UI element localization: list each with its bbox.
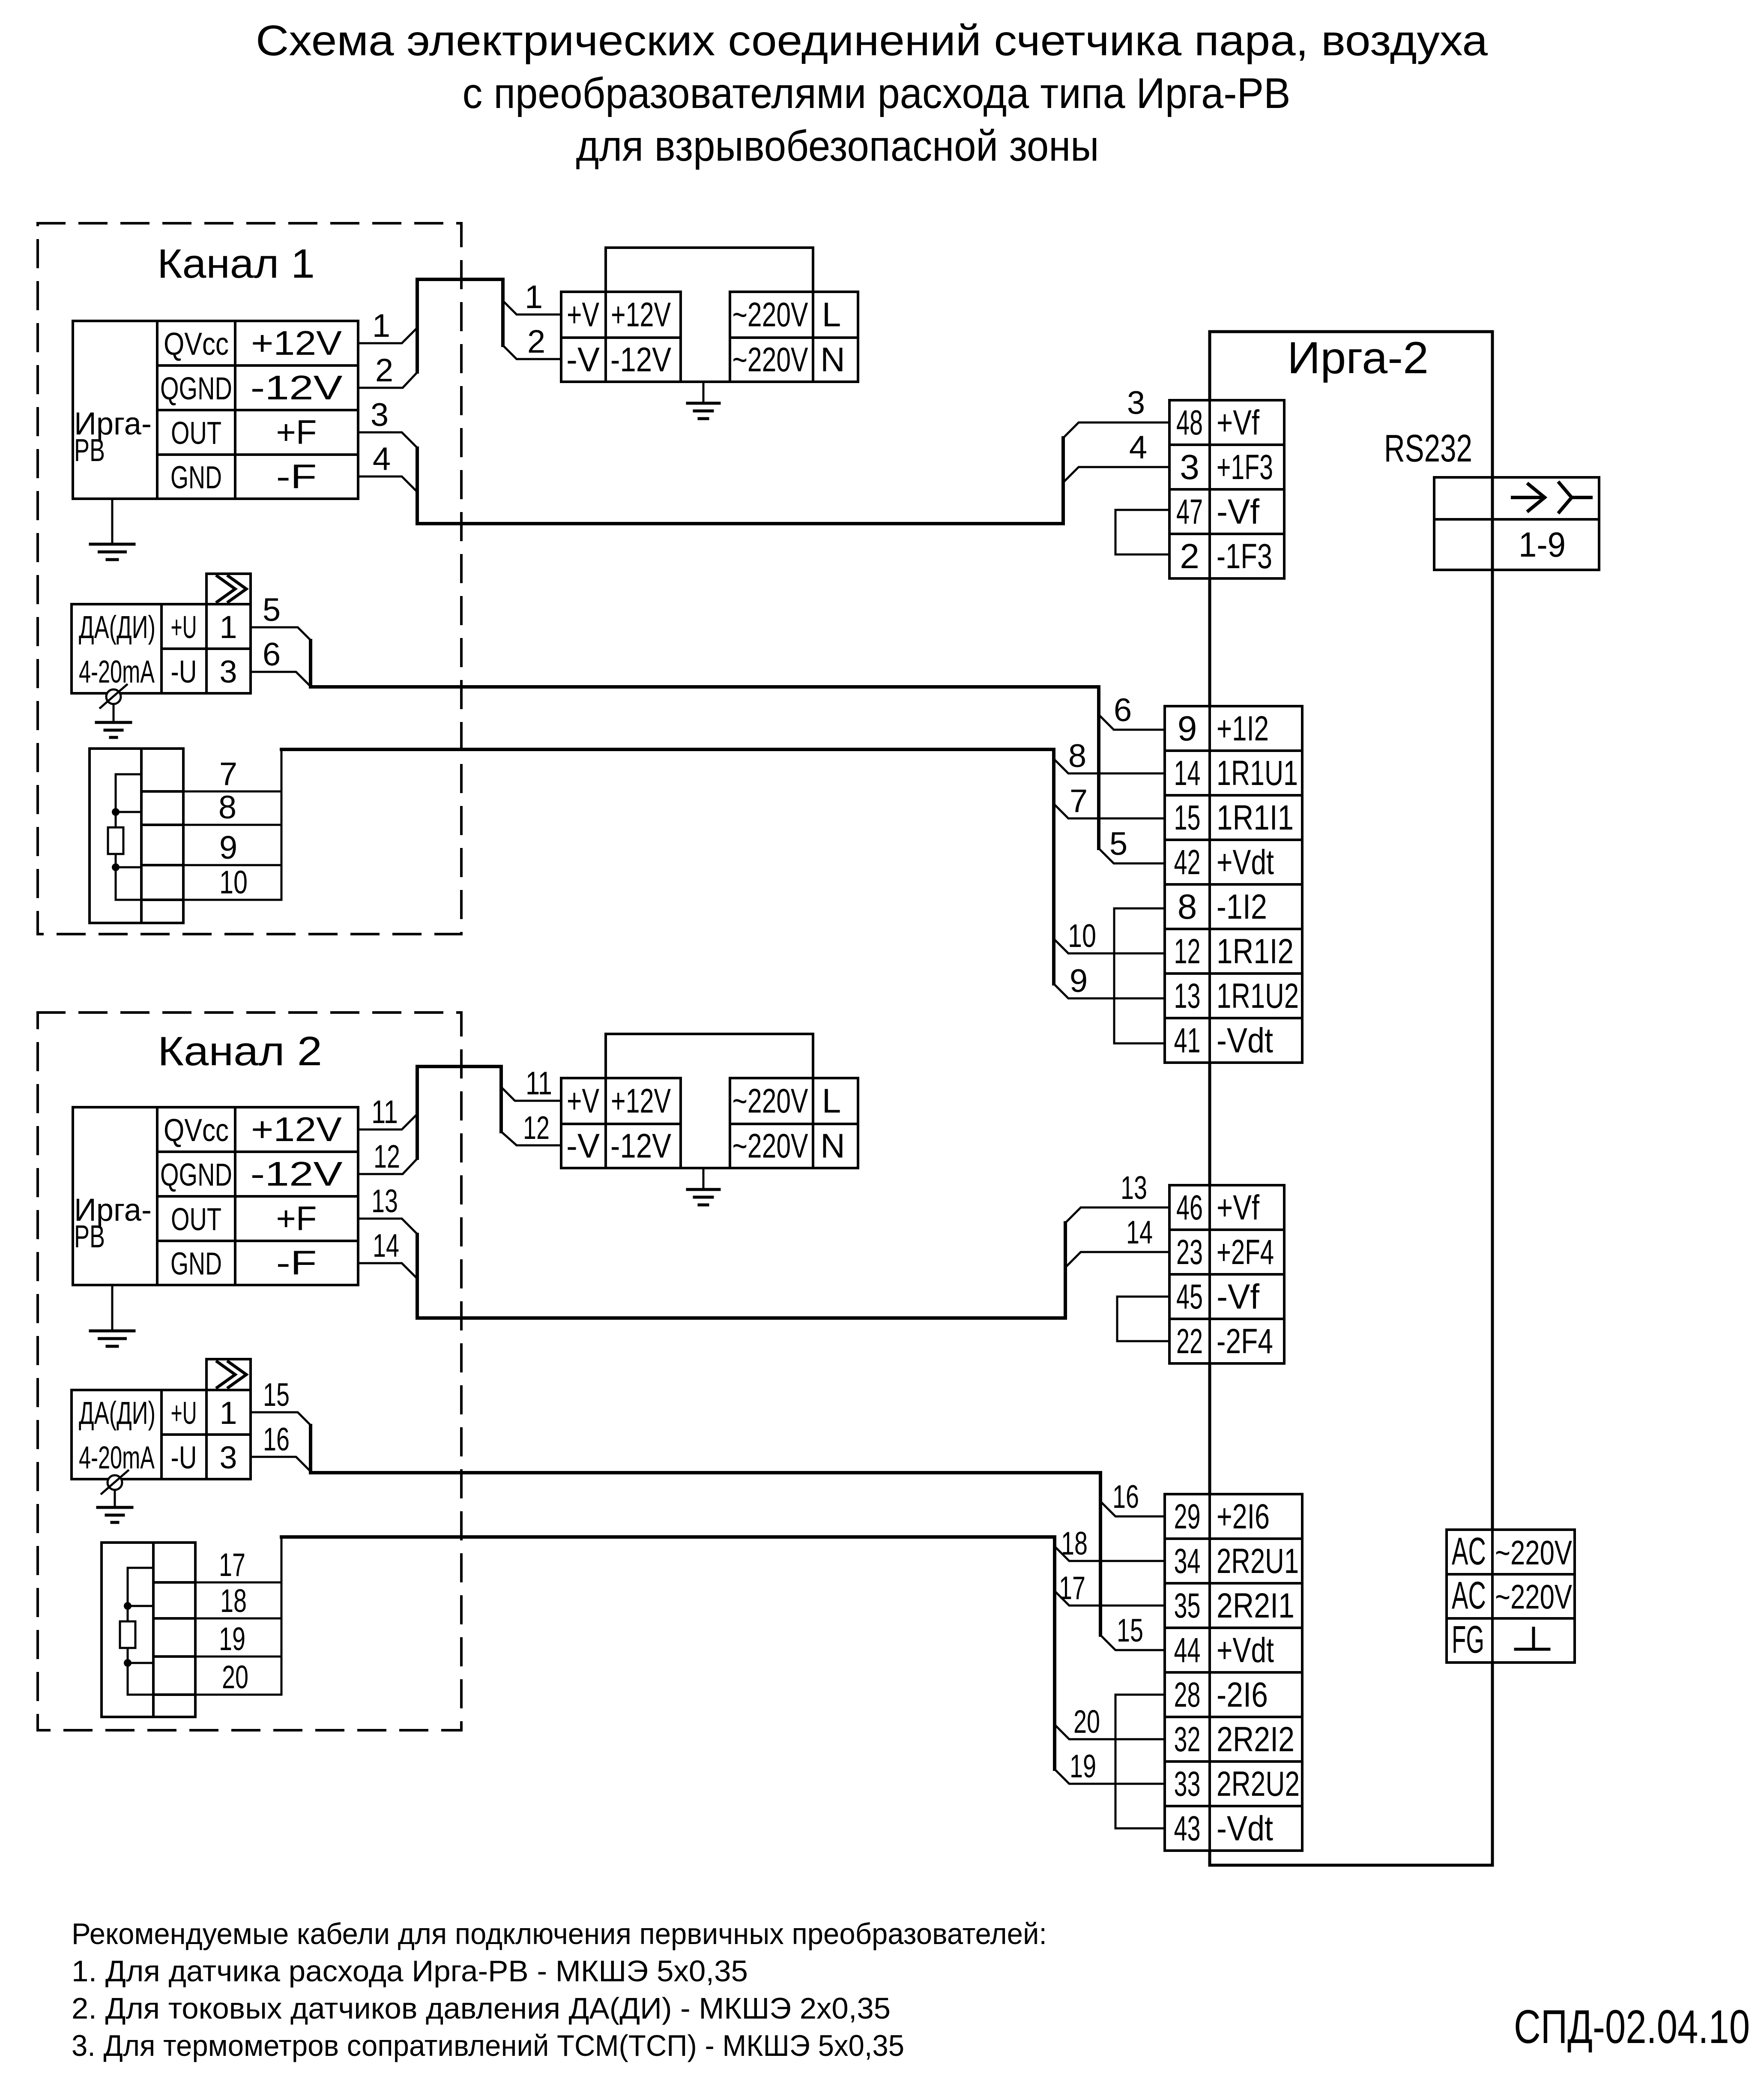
ground under Ирга-РВ ch2 xyxy=(90,1285,134,1346)
svg-text:11: 11 xyxy=(371,1094,398,1130)
svg-text:+2I6: +2I6 xyxy=(1217,1497,1270,1536)
svg-text:3. Для термометров сопративлен: 3. Для термометров сопративлений ТСМ(ТСП… xyxy=(72,2029,904,2062)
svg-text:1R1U2: 1R1U2 xyxy=(1217,977,1299,1016)
svg-text:ДА(ДИ): ДА(ДИ) xyxy=(79,1395,155,1431)
svg-text:20: 20 xyxy=(222,1659,248,1696)
svg-text:15: 15 xyxy=(263,1377,290,1413)
svg-text:QGND: QGND xyxy=(160,1157,232,1192)
svg-text:8: 8 xyxy=(1178,887,1197,926)
svg-text:+12V: +12V xyxy=(251,324,342,362)
svg-text:СПД-02.04.10: СПД-02.04.10 xyxy=(1514,2001,1750,2053)
svg-text:+U: +U xyxy=(171,1395,197,1431)
svg-text:-F: -F xyxy=(276,458,317,496)
svg-text:2: 2 xyxy=(527,324,545,360)
wire 11/12: Ирга-РВ ch2 to PSU ch2 (cable trunk) xyxy=(358,1066,561,1174)
svg-text:2R2I1: 2R2I1 xyxy=(1217,1586,1295,1625)
svg-text:13: 13 xyxy=(371,1183,398,1219)
svg-text:2R2U2: 2R2U2 xyxy=(1217,1764,1300,1803)
svg-text:1. Для датчика расхода Ирга-РВ: 1. Для датчика расхода Ирга-РВ - МКШЭ 5х… xyxy=(72,1954,748,1988)
svg-text:34: 34 xyxy=(1174,1542,1201,1581)
svg-text:~220V: ~220V xyxy=(1495,1578,1572,1616)
svg-text:Канал 1: Канал 1 xyxy=(157,241,315,287)
wires 17-20: RTD ch2 cable to terminals 34/35/32/33 xyxy=(195,1537,1165,1784)
svg-text:N: N xyxy=(820,341,845,379)
svg-text:14: 14 xyxy=(1174,754,1201,793)
svg-text:+2F4: +2F4 xyxy=(1217,1233,1274,1272)
svg-text:2R2U1: 2R2U1 xyxy=(1217,1542,1299,1581)
svg-text:QGND: QGND xyxy=(160,371,232,406)
svg-text:AC: AC xyxy=(1452,1574,1486,1617)
svg-text:-12V: -12V xyxy=(610,341,672,379)
svg-text:12: 12 xyxy=(523,1110,550,1146)
pressure sensor ДА(ДИ) 4-20mA channel 1 xyxy=(72,574,251,693)
svg-text:4-20mA: 4-20mA xyxy=(79,1440,155,1475)
svg-text:14: 14 xyxy=(373,1228,399,1264)
wires 7-10: RTD ch1 cable to terminals 14/15/12/13 xyxy=(183,749,1165,998)
svg-text:AC: AC xyxy=(1452,1530,1486,1573)
svg-text:12: 12 xyxy=(374,1138,400,1175)
svg-text:~220V: ~220V xyxy=(1495,1534,1572,1572)
shielded ground (circle-slash) under ДА(ДИ) ch1 xyxy=(96,685,131,737)
svg-text:32: 32 xyxy=(1174,1720,1201,1759)
svg-text:-2I6: -2I6 xyxy=(1217,1675,1268,1714)
svg-text:+1I2: +1I2 xyxy=(1217,709,1269,748)
wire 13/14: Ирга-РВ ch2 OUT/GND cable to terminals 46/23 xyxy=(358,1207,1169,1318)
svg-text:3: 3 xyxy=(219,1440,237,1475)
svg-text:16: 16 xyxy=(1112,1479,1139,1515)
RS232 connector box with plug-socket symbol and 1-9 xyxy=(1434,477,1599,570)
svg-text:РВ: РВ xyxy=(74,432,105,468)
svg-text:OUT: OUT xyxy=(171,1201,221,1237)
svg-text:-12V: -12V xyxy=(610,1127,672,1165)
svg-text:46: 46 xyxy=(1176,1188,1203,1227)
svg-text:+12V: +12V xyxy=(611,1082,671,1120)
power supply unit channel 1 (+V/+12V, ~220V/L-N) xyxy=(561,248,858,382)
svg-text:~220V: ~220V xyxy=(733,1082,808,1120)
svg-text:4: 4 xyxy=(1129,429,1147,466)
svg-text:L: L xyxy=(822,296,841,334)
svg-text:15: 15 xyxy=(1174,798,1201,837)
svg-text:9: 9 xyxy=(1178,709,1197,748)
wire 3/4: Ирга-РВ OUT/GND cable to terminals 48/3 xyxy=(358,422,1169,524)
svg-text:1-9: 1-9 xyxy=(1519,525,1566,564)
svg-text:18: 18 xyxy=(1061,1525,1088,1562)
svg-text:14: 14 xyxy=(1126,1214,1153,1251)
svg-text:QVcc: QVcc xyxy=(164,1112,229,1148)
svg-text:-Vdt: -Vdt xyxy=(1217,1021,1273,1060)
svg-text:42: 42 xyxy=(1174,843,1201,882)
jumper wire terminals 28 to 43 xyxy=(1115,1695,1165,1828)
svg-text:10: 10 xyxy=(1068,918,1096,954)
svg-text:1: 1 xyxy=(372,308,390,344)
svg-text:Схема электрических соединений: Схема электрических соединений счетчика … xyxy=(256,17,1488,65)
svg-text:3: 3 xyxy=(219,654,237,689)
svg-text:10: 10 xyxy=(219,864,248,901)
svg-text:+F: +F xyxy=(276,413,317,451)
svg-text:33: 33 xyxy=(1174,1764,1201,1803)
svg-text:2. Для токовых датчиков давлен: 2. Для токовых датчиков давления ДА(ДИ) … xyxy=(72,1992,891,2025)
RTD thermometer TCM block channel 2 (resistor inside) xyxy=(102,1543,195,1717)
svg-text:+F: +F xyxy=(276,1199,317,1237)
svg-text:-V: -V xyxy=(566,1127,600,1165)
svg-text:N: N xyxy=(820,1127,845,1165)
svg-text:9: 9 xyxy=(219,830,237,866)
svg-text:L: L xyxy=(822,1082,841,1120)
svg-text:17: 17 xyxy=(219,1547,245,1583)
svg-text:28: 28 xyxy=(1174,1675,1201,1714)
svg-text:+Vdt: +Vdt xyxy=(1217,1631,1274,1670)
terminal strip 48/3/47/2 (+Vf,+1F3,-Vf,-1F3) ch1 xyxy=(1169,400,1284,578)
svg-text:+Vf: +Vf xyxy=(1217,403,1259,442)
svg-text:1R1I1: 1R1I1 xyxy=(1217,798,1294,837)
svg-text:~220V: ~220V xyxy=(733,296,808,334)
svg-text:Рекомендуемые кабели для подкл: Рекомендуемые кабели для подключения пер… xyxy=(72,1917,1047,1950)
svg-text:8: 8 xyxy=(1068,738,1086,774)
svg-text:2R2I2: 2R2I2 xyxy=(1217,1720,1295,1759)
svg-text:1: 1 xyxy=(525,279,543,315)
svg-text:5: 5 xyxy=(1109,826,1127,862)
terminal strip 46/23/45/22 (+Vf,+2F4,-Vf,-2F4) ch2 xyxy=(1169,1185,1284,1363)
ground under power supply ch2 xyxy=(688,1168,719,1205)
svg-text:18: 18 xyxy=(220,1583,247,1619)
svg-text:23: 23 xyxy=(1176,1233,1203,1272)
svg-text:РВ: РВ xyxy=(74,1219,105,1254)
svg-text:2: 2 xyxy=(375,352,393,389)
wire 15/16: ДА(ДИ) ch2 cable to terminals 44/29 xyxy=(252,1412,1165,1650)
svg-text:22: 22 xyxy=(1176,1322,1203,1361)
svg-text:Канал 2: Канал 2 xyxy=(158,1028,322,1074)
svg-text:+V: +V xyxy=(567,296,599,334)
svg-text:3: 3 xyxy=(1127,385,1145,421)
svg-text:+1F3: +1F3 xyxy=(1217,448,1273,487)
svg-text:11: 11 xyxy=(526,1065,552,1102)
ground under power supply ch1 xyxy=(688,382,719,419)
svg-text:с преобразователями расхода ти: с преобразователями расхода типа Ирга-РВ xyxy=(463,69,1291,117)
svg-text:ДА(ДИ): ДА(ДИ) xyxy=(79,609,155,645)
svg-text:+12V: +12V xyxy=(251,1110,342,1148)
svg-text:-12V: -12V xyxy=(251,1155,343,1193)
svg-text:7: 7 xyxy=(219,756,237,792)
flow sensor Ирга-РВ channel 1 xyxy=(73,321,358,499)
svg-text:~220V: ~220V xyxy=(733,1127,808,1165)
svg-text:3: 3 xyxy=(371,397,389,433)
channel 1 dashed box Канал 1 xyxy=(38,223,461,934)
AC ~220V / FG terminal block xyxy=(1447,1530,1575,1663)
svg-text:1R1U1: 1R1U1 xyxy=(1217,754,1298,793)
svg-text:для взрывобезопасной зоны: для взрывобезопасной зоны xyxy=(576,122,1099,170)
svg-text:-2F4: -2F4 xyxy=(1217,1322,1273,1361)
svg-text:OUT: OUT xyxy=(171,415,221,451)
terminal strip 29..43 (+2I6..-Vdt) ch2 xyxy=(1165,1494,1302,1851)
svg-text:GND: GND xyxy=(170,460,222,495)
RTD thermometer TCM block channel 1 (resistor inside) xyxy=(90,749,183,923)
svg-text:4: 4 xyxy=(373,441,391,477)
svg-text:16: 16 xyxy=(263,1421,290,1458)
jumper wire terminals 47 to 2 xyxy=(1115,510,1169,554)
svg-text:44: 44 xyxy=(1174,1631,1201,1670)
svg-text:19: 19 xyxy=(219,1621,245,1657)
svg-text:+V: +V xyxy=(567,1082,599,1120)
ground under Ирга-РВ ch1 xyxy=(90,499,134,560)
svg-text:47: 47 xyxy=(1176,492,1203,531)
svg-text:+Vdt: +Vdt xyxy=(1217,843,1274,882)
svg-text:15: 15 xyxy=(1117,1612,1143,1649)
svg-text:-U: -U xyxy=(171,654,197,689)
svg-text:+Vf: +Vf xyxy=(1217,1188,1259,1227)
power supply unit channel 2 (+V/+12V, ~220V/L-N) xyxy=(561,1034,858,1168)
svg-text:~220V: ~220V xyxy=(733,341,808,379)
svg-text:43: 43 xyxy=(1174,1809,1201,1848)
svg-text:2: 2 xyxy=(1180,537,1199,576)
shielded ground (circle-slash) under ДА(ДИ) ch2 xyxy=(98,1471,132,1522)
svg-text:-Vdt: -Vdt xyxy=(1217,1809,1273,1848)
svg-text:13: 13 xyxy=(1121,1170,1147,1206)
svg-text:20: 20 xyxy=(1073,1704,1100,1740)
svg-text:1: 1 xyxy=(219,609,237,645)
svg-text:13: 13 xyxy=(1174,977,1201,1016)
jumper wire terminals 8 to 41 xyxy=(1114,908,1165,1043)
svg-text:5: 5 xyxy=(263,592,281,628)
svg-text:-U: -U xyxy=(171,1440,197,1475)
wire 1: Ирга-РВ QVcc to PSU +V (cable trunk) xyxy=(358,279,561,388)
svg-text:-Vf: -Vf xyxy=(1217,1277,1259,1316)
svg-text:41: 41 xyxy=(1174,1021,1201,1060)
svg-text:7: 7 xyxy=(1070,783,1088,819)
svg-text:17: 17 xyxy=(1059,1570,1085,1606)
svg-text:QVcc: QVcc xyxy=(164,326,229,362)
svg-text:6: 6 xyxy=(1114,692,1132,728)
channel 2 dashed box Канал 2 xyxy=(38,1013,461,1730)
svg-text:29: 29 xyxy=(1174,1497,1201,1536)
svg-text:35: 35 xyxy=(1174,1586,1201,1625)
svg-text:1: 1 xyxy=(219,1395,237,1431)
flow sensor Ирга-РВ channel 2 xyxy=(73,1107,358,1285)
svg-text:FG: FG xyxy=(1452,1618,1484,1661)
svg-text:19: 19 xyxy=(1070,1748,1096,1785)
svg-text:RS232: RS232 xyxy=(1384,427,1472,470)
svg-text:-Vf: -Vf xyxy=(1217,492,1259,531)
svg-text:+U: +U xyxy=(171,609,197,645)
Ирга-2 main unit box xyxy=(1210,332,1492,1865)
svg-text:45: 45 xyxy=(1176,1277,1203,1316)
svg-text:8: 8 xyxy=(218,789,236,826)
svg-text:4-20mA: 4-20mA xyxy=(79,654,155,689)
svg-text:1R1I2: 1R1I2 xyxy=(1217,932,1294,971)
pressure sensor ДА(ДИ) 4-20mA channel 2 xyxy=(72,1359,251,1479)
svg-text:12: 12 xyxy=(1174,932,1201,971)
wire 5/6: ДА(ДИ) ch1 cable to terminals 42/9 xyxy=(251,627,1165,863)
svg-text:6: 6 xyxy=(263,636,281,673)
svg-text:3: 3 xyxy=(1180,448,1199,487)
terminal strip 9..41 (+1I2..-Vdt) ch1 xyxy=(1165,706,1302,1063)
svg-text:-F: -F xyxy=(276,1244,317,1282)
svg-text:+12V: +12V xyxy=(611,296,671,334)
svg-text:48: 48 xyxy=(1176,403,1203,442)
svg-text:-V: -V xyxy=(566,341,600,379)
svg-text:9: 9 xyxy=(1070,963,1088,999)
svg-text:-1F3: -1F3 xyxy=(1217,537,1272,576)
svg-text:GND: GND xyxy=(170,1246,222,1282)
svg-text:-12V: -12V xyxy=(251,368,343,407)
svg-text:-1I2: -1I2 xyxy=(1217,887,1267,926)
jumper wire terminals 45 to 22 xyxy=(1117,1297,1169,1341)
svg-text:Ирга-2: Ирга-2 xyxy=(1287,333,1429,383)
